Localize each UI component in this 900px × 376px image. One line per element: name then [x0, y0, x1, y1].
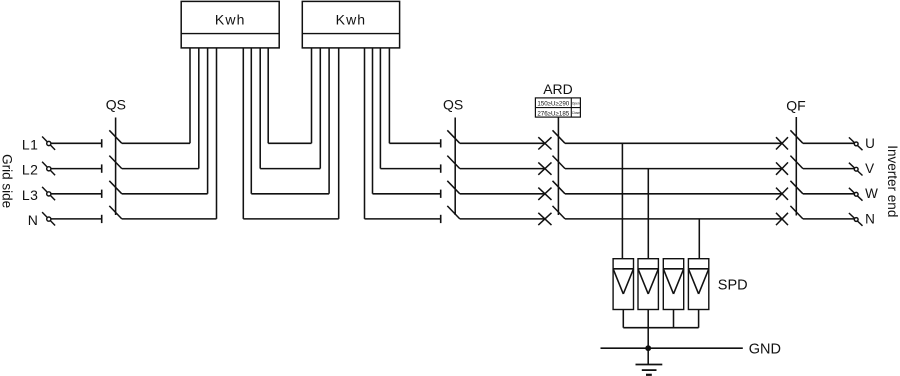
svg-text:L2: L2: [22, 162, 39, 178]
svg-text:Inverter end: Inverter end: [885, 145, 900, 217]
svg-text:Kwh: Kwh: [336, 12, 367, 28]
svg-text:N: N: [865, 211, 875, 226]
svg-text:Grid side: Grid side: [0, 154, 15, 208]
svg-text:L1: L1: [22, 136, 39, 152]
svg-text:QS: QS: [106, 97, 126, 113]
svg-text:L3: L3: [22, 187, 39, 203]
svg-text:N: N: [28, 212, 39, 228]
svg-text:QF: QF: [786, 97, 805, 113]
svg-text:Open: Open: [572, 101, 580, 105]
svg-text:Kwh: Kwh: [215, 12, 246, 28]
svg-text:U: U: [865, 136, 875, 151]
svg-text:276≥U≥185: 276≥U≥185: [537, 110, 569, 117]
svg-text:W: W: [865, 186, 878, 201]
svg-text:ARD: ARD: [543, 81, 573, 97]
svg-text:150≥U≥290: 150≥U≥290: [537, 101, 569, 108]
svg-text:QS: QS: [443, 97, 463, 113]
svg-text:SPD: SPD: [718, 277, 748, 293]
svg-text:Close: Close: [572, 111, 580, 115]
svg-text:GND: GND: [749, 341, 781, 357]
svg-text:V: V: [865, 161, 874, 176]
